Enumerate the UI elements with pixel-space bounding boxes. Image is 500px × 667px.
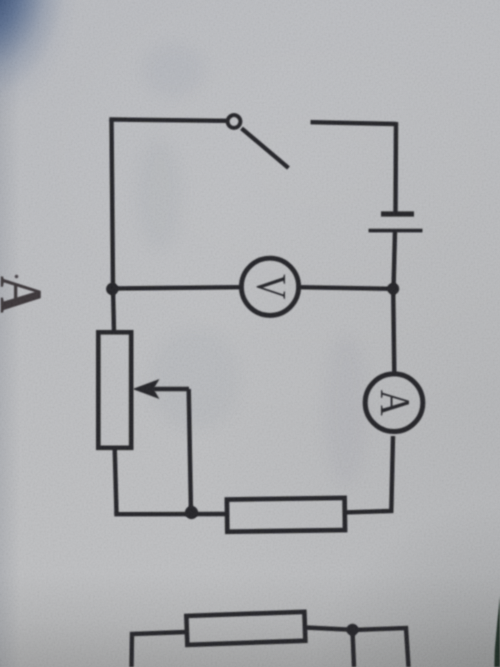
switch S pivot circle [228, 115, 241, 128]
page margin period dot [15, 275, 19, 279]
wire: resistor R2 to bottom right corner [345, 436, 393, 512]
wire: left vertical (top corner to rheostat) [112, 120, 115, 333]
node C junction dot [185, 506, 198, 519]
faint show-through smudge right column [325, 335, 367, 485]
faint show-through smudge mid [150, 330, 240, 430]
faint show-through smudge top middle [142, 44, 204, 96]
wire: top horizontal, right section [311, 122, 397, 124]
resistor R2 body [227, 498, 345, 532]
switch S blade [242, 128, 289, 168]
faint show-through smudge left column [136, 140, 182, 250]
battery GB: long thin plate [369, 229, 423, 233]
rheostat wiper arrowhead [133, 379, 160, 399]
circuit 2: node D junction dot [347, 624, 359, 636]
wire: rheostat bottom lead [115, 448, 117, 514]
photo edge dark sliver bottom-right [494, 596, 500, 667]
wire: top horizontal, left section [112, 120, 227, 122]
wire: bottom left horizontal [117, 512, 228, 514]
node B junction dot [387, 283, 399, 295]
circuit 2: wire left vertical [132, 632, 188, 667]
circuit 2: wire node D to right corner [353, 628, 409, 667]
node A junction dot [106, 283, 118, 295]
rheostat R1 body [98, 332, 131, 448]
circuit 2: wire node D down [353, 630, 355, 667]
wire: voltmeter left lead from node A [112, 287, 242, 288]
wire: voltmeter right lead to node B [299, 287, 395, 289]
wire: ammeter to node B vertical [393, 289, 394, 374]
circuit 2: resistor R3 body [186, 612, 305, 645]
rheostat wiper vertical wire [189, 389, 191, 513]
voltmeter V circle [241, 258, 298, 315]
rheostat wiper horizontal wire [150, 387, 189, 391]
wire: right vertical above battery [393, 122, 398, 212]
circuit 2: wire resistor to node D [305, 628, 353, 630]
battery GB: short thick plate [381, 211, 414, 216]
wire: battery to node B [394, 231, 396, 289]
ammeter A circle [365, 374, 423, 432]
